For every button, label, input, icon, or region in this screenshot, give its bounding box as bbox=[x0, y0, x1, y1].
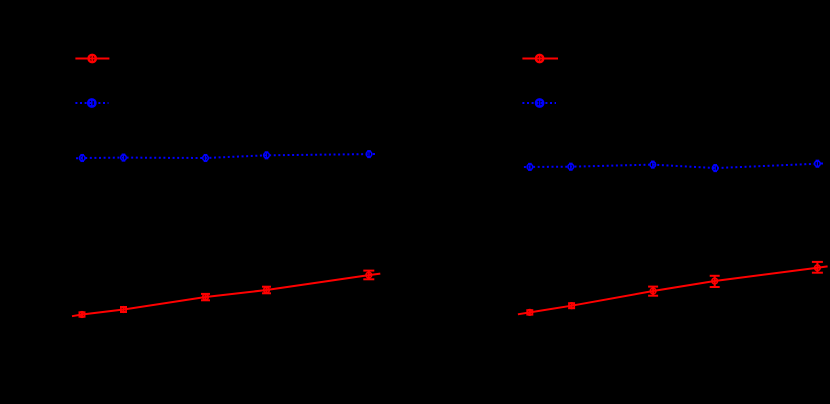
red error bars (left) bbox=[79, 271, 375, 317]
red error bars (right) bbox=[526, 262, 823, 315]
blue markers (left) bbox=[79, 151, 371, 161]
legend sample: blue dotted line bbox=[75, 99, 108, 106]
red solid series (left) bbox=[72, 274, 380, 317]
blue error bars (right) bbox=[528, 160, 819, 171]
legend sample: red solid line bbox=[75, 55, 109, 62]
red markers (right) bbox=[527, 265, 820, 315]
legend sample: blue dotted line bbox=[522, 99, 556, 106]
blue dotted series (left) bbox=[76, 154, 375, 158]
blue dotted series (right) bbox=[524, 164, 823, 169]
legend sample: red solid line bbox=[522, 55, 558, 62]
blue error bars (left) bbox=[80, 151, 370, 162]
red solid series (right) bbox=[518, 266, 828, 314]
blue markers (right) bbox=[527, 161, 820, 171]
red markers (left) bbox=[79, 272, 371, 317]
